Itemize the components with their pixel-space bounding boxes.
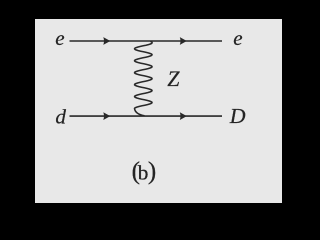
svg-text:D: D xyxy=(229,104,246,128)
arrow bottom-left xyxy=(103,112,110,120)
svg-text:e: e xyxy=(233,26,242,50)
svg-text:e: e xyxy=(55,26,64,50)
arrow bottom-right xyxy=(180,112,187,120)
svg-text:b: b xyxy=(138,163,149,185)
arrow top-right xyxy=(180,37,187,45)
figure panel xyxy=(35,19,282,203)
wire: incoming electron line (top left) xyxy=(70,40,223,42)
wire: bottom quark line xyxy=(70,115,223,117)
svg-text:d: d xyxy=(55,106,67,128)
Z boson wavy propagator xyxy=(135,41,153,115)
svg-text:Z: Z xyxy=(167,66,180,91)
arrow top-left xyxy=(103,37,110,45)
svg-text:): ) xyxy=(148,158,156,185)
